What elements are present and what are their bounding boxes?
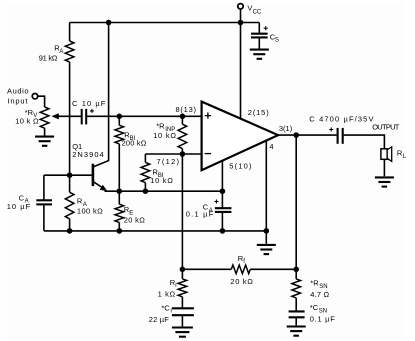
svg-text:20 kΩ: 20 kΩ (230, 277, 253, 286)
svg-text:10 kΩ: 10 kΩ (150, 176, 173, 185)
svg-text:3(1): 3(1) (279, 124, 293, 133)
svg-text:C 10 µF: C 10 µF (72, 99, 106, 108)
svg-text:*R: *R (310, 279, 319, 288)
svg-text:2(15): 2(15) (248, 108, 269, 117)
svg-text:SN: SN (319, 308, 327, 314)
svg-text:20 kΩ: 20 kΩ (124, 216, 145, 225)
svg-text:i: i (171, 309, 172, 315)
svg-text:7(12): 7(12) (157, 157, 180, 166)
svg-text:C 4700 µF/35V: C 4700 µF/35V (309, 114, 373, 123)
svg-text:CC: CC (253, 9, 262, 15)
svg-text:*R: *R (156, 122, 165, 131)
svg-text:*C: *C (161, 303, 170, 312)
svg-text:10 kΩ: 10 kΩ (153, 131, 176, 140)
svg-text:i: i (175, 283, 176, 289)
svg-text:100 kΩ: 100 kΩ (77, 206, 103, 215)
svg-text:10 µF: 10 µF (7, 202, 31, 211)
svg-text:91 kΩ: 91 kΩ (39, 53, 58, 62)
svg-text:A: A (59, 49, 63, 55)
svg-text:4: 4 (269, 142, 273, 151)
svg-text:4.7 Ω: 4.7 Ω (310, 290, 329, 299)
svg-text:1 kΩ: 1 kΩ (158, 290, 176, 299)
svg-text:5(10): 5(10) (229, 161, 252, 170)
svg-text:OUTPUT: OUTPUT (372, 123, 400, 132)
svg-text:200 kΩ: 200 kΩ (122, 139, 147, 148)
svg-text:S: S (275, 37, 279, 43)
svg-text:Input: Input (8, 97, 29, 106)
svg-text:2N3904: 2N3904 (72, 150, 104, 159)
svg-text:SN: SN (319, 284, 327, 290)
svg-text:Audio: Audio (7, 86, 29, 95)
svg-text:0.1 µF: 0.1 µF (310, 315, 335, 324)
svg-text:10 k Ω: 10 k Ω (15, 117, 39, 126)
svg-text:*C: *C (310, 303, 319, 312)
svg-text:8(13): 8(13) (176, 105, 197, 114)
svg-text:22 µF: 22 µF (149, 315, 169, 324)
